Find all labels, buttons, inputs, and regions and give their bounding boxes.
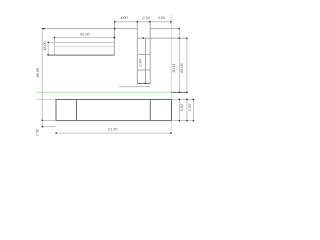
- svg-text:3.52: 3.52: [179, 103, 184, 111]
- svg-text:2.34: 2.34: [141, 15, 150, 20]
- svg-text:2.44: 2.44: [137, 58, 142, 67]
- svg-text:65.96: 65.96: [80, 31, 90, 36]
- svg-text:4.00: 4.00: [120, 15, 128, 20]
- svg-text:58.85: 58.85: [35, 67, 40, 77]
- svg-text:1.60: 1.60: [187, 103, 192, 111]
- svg-text:30.11: 30.11: [171, 64, 176, 73]
- svg-text:65.08: 65.08: [179, 63, 184, 73]
- svg-text:4.00: 4.00: [158, 15, 166, 20]
- svg-text:21.50: 21.50: [107, 127, 118, 132]
- svg-text:15.00: 15.00: [42, 40, 47, 50]
- svg-text:1.50: 1.50: [34, 128, 39, 136]
